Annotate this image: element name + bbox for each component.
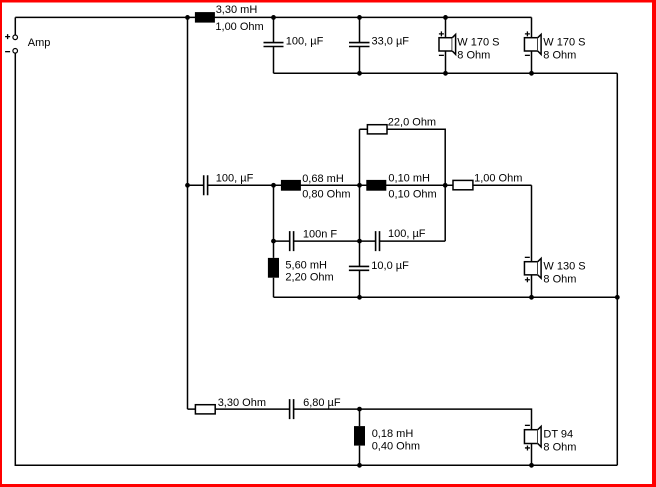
svg-text:8 Ohm: 8 Ohm (543, 274, 576, 286)
svg-text:W 170 S: W 170 S (543, 36, 585, 48)
svg-text:0,40 Ohm: 0,40 Ohm (372, 440, 420, 452)
svg-text:8 Ohm: 8 Ohm (543, 442, 576, 454)
svg-text:0,10 Ohm: 0,10 Ohm (388, 188, 436, 200)
svg-text:3,30 mH: 3,30 mH (216, 4, 258, 16)
svg-text:0,68 mH: 0,68 mH (302, 173, 344, 185)
svg-text:100, µF: 100, µF (216, 172, 254, 184)
svg-text:2,20 Ohm: 2,20 Ohm (285, 272, 333, 284)
svg-text:100n F: 100n F (303, 229, 338, 241)
svg-text:3,30 Ohm: 3,30 Ohm (218, 397, 266, 409)
svg-text:1,00 Ohm: 1,00 Ohm (474, 173, 522, 185)
svg-text:8 Ohm: 8 Ohm (543, 49, 576, 61)
svg-text:0,80 Ohm: 0,80 Ohm (302, 188, 350, 200)
svg-text:8 Ohm: 8 Ohm (457, 49, 490, 61)
svg-text:100, µF: 100, µF (286, 36, 324, 48)
svg-text:DT 94: DT 94 (543, 428, 573, 440)
svg-text:33,0 µF: 33,0 µF (372, 36, 410, 48)
svg-text:10,0 µF: 10,0 µF (371, 260, 409, 272)
svg-text:6,80 µF: 6,80 µF (303, 397, 341, 409)
svg-text:0,18 mH: 0,18 mH (372, 428, 414, 440)
svg-text:Amp: Amp (28, 37, 51, 49)
svg-text:100, µF: 100, µF (388, 228, 426, 240)
svg-text:0,10 mH: 0,10 mH (388, 173, 430, 185)
svg-text:W 170 S: W 170 S (457, 36, 499, 48)
svg-text:5,60 mH: 5,60 mH (285, 260, 327, 272)
svg-text:22,0 Ohm: 22,0 Ohm (388, 116, 436, 128)
svg-text:1,00 Ohm: 1,00 Ohm (215, 21, 263, 33)
svg-text:W 130 S: W 130 S (543, 261, 585, 273)
